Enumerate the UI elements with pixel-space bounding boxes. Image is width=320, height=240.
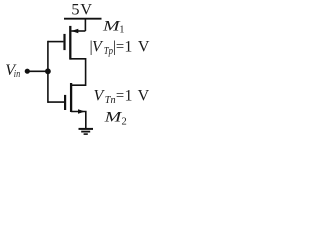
- power rail VDD: [64, 18, 102, 20]
- transistor M1 (PMOS): [48, 26, 78, 60]
- svg-text:5: 5: [71, 0, 79, 18]
- label M1: [102, 19, 125, 36]
- label Vin: [5, 62, 20, 80]
- wire M2 source to ground: [71, 112, 86, 129]
- svg-text:V: V: [80, 0, 92, 18]
- gate bus wire: [47, 41, 49, 103]
- node gate junction dot: [45, 68, 51, 74]
- M1 gate wire: [48, 41, 64, 43]
- M1 source arrow: [71, 29, 78, 34]
- label VTn=1 V: [94, 87, 150, 106]
- svg-text:V: V: [92, 39, 104, 56]
- ground: [79, 129, 94, 134]
- label M2: [103, 110, 126, 128]
- svg-text:Tn: Tn: [105, 94, 116, 106]
- svg-text:=: =: [116, 39, 124, 56]
- wire M1 source: [72, 30, 86, 32]
- M2 source arrow: [78, 109, 85, 114]
- svg-text:1: 1: [125, 87, 133, 104]
- wire M1 drain to output node: [70, 59, 85, 85]
- transistor M2 (NMOS): [48, 83, 85, 114]
- svg-text:1: 1: [119, 25, 124, 36]
- M2 channel: [70, 83, 72, 112]
- svg-text:=: =: [116, 87, 124, 104]
- label 5 V: [71, 0, 92, 18]
- svg-text:V: V: [138, 87, 150, 104]
- wire supply drop: [84, 19, 86, 31]
- node Vin terminal dot: [25, 69, 30, 74]
- M1 gate bar: [63, 34, 65, 50]
- label |VTp|=1 V: [90, 39, 150, 58]
- M2 gate bar: [64, 95, 66, 110]
- M2 gate wire: [48, 101, 64, 103]
- M1 channel: [69, 26, 71, 60]
- svg-text:in: in: [14, 69, 20, 80]
- svg-text:V: V: [138, 39, 150, 56]
- svg-text:2: 2: [122, 117, 127, 128]
- svg-text:V: V: [94, 87, 106, 104]
- svg-text:M: M: [103, 110, 123, 126]
- wire Vin lead: [27, 70, 48, 72]
- svg-text:1: 1: [124, 39, 132, 56]
